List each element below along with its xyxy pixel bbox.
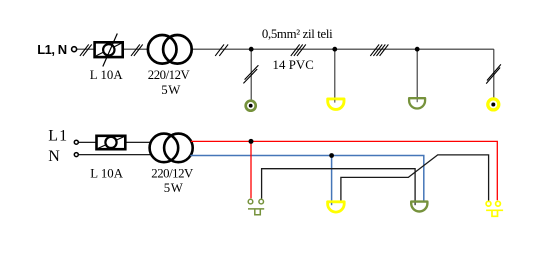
svg-text:0,5mm² zil teli: 0,5mm² zil teli xyxy=(262,27,333,41)
svg-text:14 PVC: 14 PVC xyxy=(273,58,314,72)
svg-text:L 10A: L 10A xyxy=(90,68,124,82)
svg-text:L1: L1 xyxy=(48,127,67,144)
svg-text:5W: 5W xyxy=(161,83,181,97)
svg-text:L1, N: L1, N xyxy=(37,42,67,57)
svg-text:N: N xyxy=(48,148,60,165)
svg-text:5W: 5W xyxy=(164,181,184,195)
svg-text:L 10A: L 10A xyxy=(90,166,124,180)
svg-text:220/12V: 220/12V xyxy=(151,166,194,180)
svg-text:220/12V: 220/12V xyxy=(148,68,191,82)
